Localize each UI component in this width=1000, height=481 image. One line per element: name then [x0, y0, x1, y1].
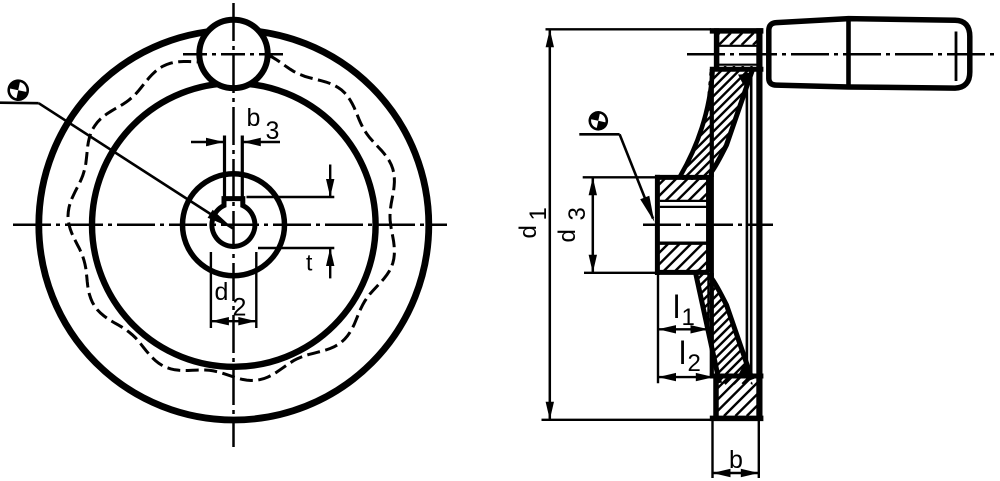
svg-text:2: 2	[233, 294, 247, 322]
svg-text:t: t	[306, 250, 313, 276]
svg-text:1: 1	[525, 207, 552, 220]
hatch top rim	[696, 33, 776, 45]
top rim left edge	[714, 28, 720, 71]
hub right edge	[706, 177, 711, 272]
d2 extension lines	[211, 252, 256, 328]
bottom rim bottom edge	[710, 416, 764, 422]
label d2	[215, 278, 247, 322]
svg-text:b: b	[729, 446, 743, 474]
hub bore top line	[660, 206, 710, 208]
leader line side	[579, 134, 654, 221]
hub top face	[655, 175, 712, 180]
hub left face	[655, 175, 660, 275]
top rim top edge	[710, 28, 764, 34]
bottom rim left edge	[713, 374, 719, 422]
handle grip end cap line	[955, 32, 958, 82]
label d1	[515, 207, 552, 238]
side view handle centre line	[687, 53, 998, 56]
top web front surface	[711, 71, 752, 178]
t extension lines	[247, 197, 335, 248]
leader line front	[0, 103, 233, 229]
disc front plane line	[710, 69, 714, 378]
d2 dimension line	[211, 317, 256, 325]
svg-text:3: 3	[564, 207, 591, 220]
svg-text:3: 3	[266, 117, 280, 145]
d3 dimension line	[589, 177, 597, 272]
b dimension line	[713, 469, 759, 477]
handle grip outline	[769, 19, 970, 89]
svg-text:d: d	[515, 225, 542, 238]
handle grip mid line	[846, 17, 851, 90]
hub keyway line	[660, 200, 710, 202]
top web back surface	[680, 68, 713, 177]
b3 dimension line	[191, 138, 280, 146]
bottom web back surface	[696, 273, 720, 384]
front view wavy grip contour (hidden dashed)	[68, 52, 394, 381]
top rim bore bottom line	[717, 64, 759, 66]
label d3	[554, 207, 591, 242]
l2 dimension line	[658, 373, 714, 381]
front view outer rim circle	[39, 30, 429, 420]
label b	[729, 446, 743, 474]
label l2	[679, 335, 701, 377]
bottom web hatch	[566, 270, 874, 384]
front view hub circle	[183, 174, 285, 276]
svg-text:l: l	[673, 289, 680, 325]
b3 extension lines	[225, 136, 243, 198]
front view bore with keyway	[212, 199, 255, 247]
datum symbol front	[7, 79, 30, 102]
label b3	[247, 104, 280, 145]
d1 extension lines	[542, 29, 712, 420]
hatch hub lower	[616, 244, 748, 273]
rim front face line	[756, 28, 762, 421]
front view vertical centre line	[232, 3, 235, 447]
bottom rim top edge	[710, 374, 764, 379]
l dims left extension line	[657, 272, 659, 383]
d3 extension lines	[583, 177, 658, 272]
hatch hub upper	[631, 177, 746, 201]
l1 right extension line	[707, 273, 709, 334]
svg-text:d: d	[215, 278, 229, 306]
front view inner rim circle	[92, 83, 376, 367]
bottom web front surface	[711, 273, 752, 380]
svg-text:b: b	[247, 104, 261, 132]
handle circle horizontal centre line	[183, 53, 287, 56]
rim inner contour lines	[747, 73, 751, 374]
bottom web rim fillet	[738, 364, 752, 380]
d1 dimension line	[546, 29, 554, 420]
label t	[306, 250, 313, 276]
top web hatch	[568, 66, 876, 180]
front view horizontal centre line	[13, 224, 447, 227]
front view handle grip circle	[199, 20, 267, 88]
l1 dimension line	[658, 325, 709, 333]
side view wheel centre line	[643, 223, 773, 226]
svg-text:2: 2	[688, 350, 701, 377]
hatch bottom rim	[667, 377, 809, 416]
label l1	[673, 289, 695, 331]
hub bottom face	[655, 270, 710, 275]
top rim bottom edge	[710, 67, 764, 72]
top rim bore top line	[717, 45, 759, 47]
datum symbol side	[588, 111, 608, 131]
svg-text:1: 1	[682, 304, 695, 331]
svg-text:d: d	[554, 229, 581, 242]
top web rim fillet	[738, 71, 752, 87]
svg-text:l: l	[679, 335, 686, 371]
b extension lines	[713, 421, 759, 478]
hub bore bottom line	[658, 241, 711, 244]
t dimension lines	[326, 165, 334, 279]
